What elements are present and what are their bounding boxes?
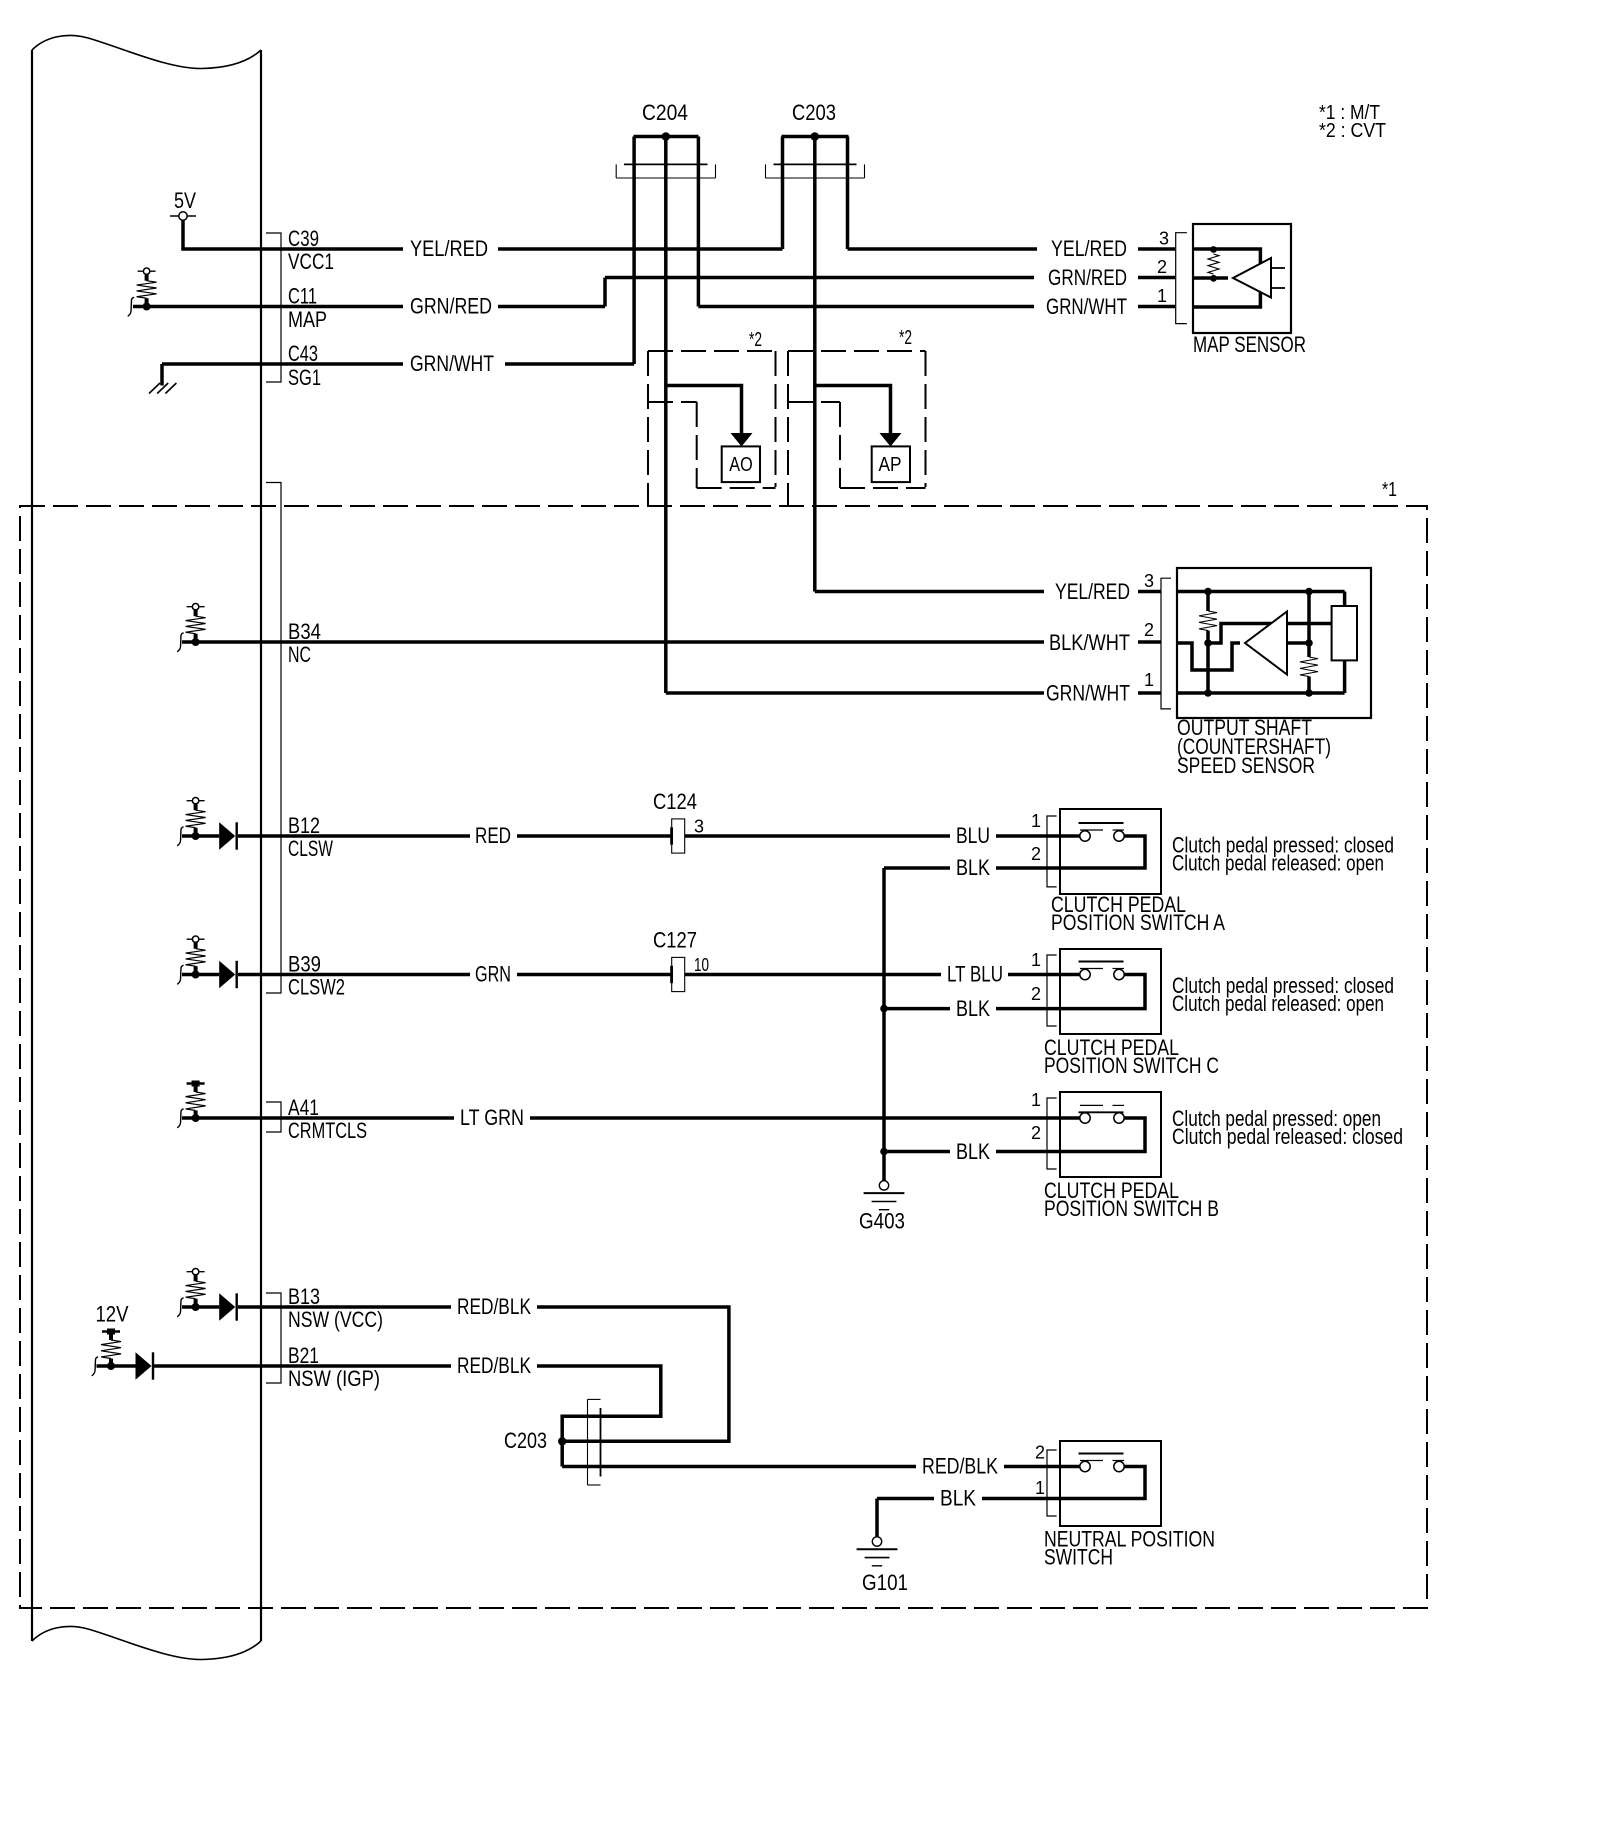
ECM connector bracket A41 [266,1102,281,1132]
wire continuation squiggle C11 [128,297,134,316]
svg-text:SWITCH: SWITCH [1044,1545,1113,1570]
svg-text:C43: C43 [288,341,318,366]
connector bracket at switch C [1047,955,1057,1026]
MAP internal: amplifier triangle [1233,258,1271,298]
svg-text:SG1: SG1 [288,365,321,390]
svg-text:1: 1 [1035,1478,1045,1498]
wire C203 pin left (from C39 YEL/RED) [781,137,785,250]
svg-text:RED/BLK: RED/BLK [457,1353,531,1378]
wire BLK neutral switch pin 1 to G101 [982,1497,1060,1501]
svg-text:GRN/WHT: GRN/WHT [410,351,494,376]
svg-text:POSITION SWITCH B: POSITION SWITCH B [1044,1196,1219,1221]
connector bracket at neutral switch [1047,1450,1057,1516]
svg-text:BLU: BLU [956,823,990,848]
wire C204 pin right (to MAP GRN/WHT) [697,137,701,307]
connector C124 [672,819,685,853]
clutch pedal position switch A [1060,809,1161,894]
svg-text:C11: C11 [288,284,317,309]
svg-text:*2: *2 [899,327,912,349]
pull-up resistor at B39 [187,938,205,940]
node AO [722,446,760,482]
wire 5V to C39 [181,220,185,249]
svg-text:2: 2 [1031,1123,1041,1143]
net *2 CVT dashed outline (AO) [648,350,776,352]
wire GRN/WHT C204 to MAP pin 1 [698,305,1034,309]
svg-text:2: 2 [1031,844,1041,864]
wire C203 pin center (to speed sensor YEL/RED) [813,137,817,592]
MAP internal: supply wrap wire [1193,249,1260,307]
svg-text:GRN/RED: GRN/RED [410,294,492,319]
neutral position switch [1060,1441,1161,1526]
connector bracket at MAP sensor [1176,233,1187,324]
svg-text:*2 : CVT: *2 : CVT [1319,120,1386,142]
wire GRN/WHT C43 to C204 [162,362,261,366]
svg-text:BLK: BLK [956,1139,990,1164]
ground G403 [879,1181,888,1190]
clutch pedal position switch B [1060,1092,1161,1177]
svg-text:BLK/WHT: BLK/WHT [1049,630,1130,655]
node AP [872,446,910,482]
wire BLK switch B pin 2 to ground rail [884,1150,950,1154]
sensor internal: signal jog wire [1177,643,1240,670]
ECM connector bracket B34-B39 [266,483,281,994]
svg-text:Clutch pedal released: open: Clutch pedal released: open [1172,851,1384,876]
wire continuation squiggle B12 [177,827,183,846]
svg-text:POSITION SWITCH A: POSITION SWITCH A [1051,910,1225,935]
wire YEL/RED C39 to C203 [261,247,403,251]
ground G101 [872,1537,881,1546]
wire GRN/RED C11 to MAP pin 2 [133,305,403,309]
ECM connector bracket B13-B21 [266,1293,281,1383]
svg-text:A41: A41 [288,1095,319,1120]
MAP internal: output stubs [1271,267,1285,269]
wire BLK switch C pin 2 to ground rail [884,1007,950,1011]
svg-text:BLK: BLK [956,855,990,880]
svg-text:GRN: GRN [475,962,511,987]
diode at B21 [97,1364,136,1368]
svg-text:CLSW2: CLSW2 [288,975,345,1000]
svg-text:POSITION SWITCH C: POSITION SWITCH C [1044,1053,1219,1078]
svg-text:2: 2 [1031,984,1041,1004]
wire branch to AP (CVT) [815,386,891,435]
wire continuation squiggle B34 [177,633,183,652]
clutch pedal position switch C [1060,949,1161,1034]
svg-text:MAP: MAP [288,307,327,332]
svg-text:3: 3 [1144,571,1154,591]
connector C204 [616,177,715,179]
svg-text:10: 10 [694,955,709,975]
sensor internal: left pullup rail [1206,592,1210,612]
svg-text:B39: B39 [288,952,321,977]
svg-text:SPEED SENSOR: SPEED SENSOR [1177,753,1315,778]
svg-text:GRN/WHT: GRN/WHT [1046,294,1127,319]
junction node RED/BLK [558,1437,566,1445]
wire RED/BLK B21 to C203 junction [261,1364,451,1368]
svg-text:RED/BLK: RED/BLK [922,1454,998,1479]
svg-text:*1: *1 [1382,479,1397,501]
MAP internal: signal wire to amp [1193,276,1228,280]
pull-up resistor at B34 [187,606,205,608]
svg-text:1: 1 [1144,670,1154,690]
wire BLK/WHT B34 to speed sensor pin 2 [182,640,1044,644]
wire BLU C124 to switch A pin 1 [685,834,950,838]
diode at B13 [182,1305,219,1309]
svg-text:C127: C127 [653,928,697,953]
svg-text:5V: 5V [174,188,196,213]
net *2 CVT dashed outline (AP) [788,350,926,352]
wire continuation squiggle A41 [177,1109,183,1128]
svg-text:RED: RED [475,823,511,848]
svg-text:2: 2 [1157,257,1167,277]
svg-text:NC: NC [288,642,311,667]
wire LT GRN A41 to switch B pin 1 [182,1116,454,1120]
svg-text:NSW (VCC): NSW (VCC) [288,1307,383,1332]
ECM/PCM band (torn edges) [31,50,33,1641]
svg-text:C203: C203 [504,1428,547,1453]
svg-text:2: 2 [1035,1443,1045,1463]
pull-up resistor at B12 [187,800,205,802]
svg-text:YEL/RED: YEL/RED [1051,236,1127,261]
wire C204 pin left (to SG1 GRN/WHT) [632,137,636,365]
svg-text:Clutch pedal released: open: Clutch pedal released: open [1172,991,1384,1016]
wire continuation squiggle B39 [177,965,183,984]
connector bracket at switch B [1047,1098,1057,1169]
svg-text:1: 1 [1031,811,1041,831]
svg-text:VCC1: VCC1 [288,249,334,274]
sensor internal: amplifier triangle [1245,612,1287,675]
sensor internal: bottom rail [1177,691,1345,695]
svg-text:3: 3 [694,817,704,837]
connector bracket at speed sensor [1161,578,1171,709]
connector C203 (top) [766,177,865,179]
wire BLK switch A pin 2 to ground rail [884,866,950,870]
svg-text:LT GRN: LT GRN [460,1105,524,1130]
wire continuation squiggle B13 [177,1298,183,1317]
connector C127 [672,957,685,991]
pull-up resistor at C11 [138,270,156,272]
connector bracket at switch A [1047,816,1057,887]
pull-up T-bar resistor at A41 [187,1082,205,1084]
svg-text:AP: AP [879,454,902,476]
OUTPUT SHAFT speed sensor box [1177,568,1371,718]
svg-text:B13: B13 [288,1284,320,1309]
svg-text:LT BLU: LT BLU [947,962,1003,987]
wire RED B12 to C124 [261,834,470,838]
wire YEL/RED C203 to MAP pin 3 [848,247,1038,251]
wire YEL/RED C203 to speed sensor pin 3 [815,590,1044,594]
svg-text:NSW (IGP): NSW (IGP) [288,1366,380,1391]
svg-text:1: 1 [1031,1090,1041,1110]
power 5V [170,215,196,217]
svg-text:Clutch pedal released: closed: Clutch pedal released: closed [1172,1124,1403,1149]
net *1 M/T dashed boundary box [20,506,1427,1608]
sensor internal: load resistor block [1332,606,1357,660]
wire branch to AO (CVT) [666,386,742,435]
diode at B12 [182,834,219,838]
wire ground rail (BLK) [882,868,886,1181]
svg-text:*2: *2 [749,329,762,351]
svg-text:RED/BLK: RED/BLK [457,1294,531,1319]
svg-text:GRN/WHT: GRN/WHT [1046,681,1130,706]
sensor internal: bias step to amp input [1208,624,1332,644]
svg-text:B12: B12 [288,813,320,838]
svg-text:YEL/RED: YEL/RED [1055,579,1130,604]
svg-text:CRMTCLS: CRMTCLS [288,1118,367,1143]
svg-text:12V: 12V [96,1302,129,1327]
ECM connector bracket C39-SG1 [266,233,281,382]
svg-text:GRN/RED: GRN/RED [1048,265,1127,290]
svg-text:B21: B21 [288,1343,319,1368]
svg-text:C39: C39 [288,226,319,251]
svg-text:BLK: BLK [956,996,990,1021]
svg-text:B34: B34 [288,619,321,644]
wire RED/BLK B13 to C203 junction [261,1305,451,1309]
svg-text:MAP SENSOR: MAP SENSOR [1193,332,1306,357]
svg-text:C203: C203 [792,100,836,125]
pull-up resistor at B13 [187,1271,205,1273]
svg-text:3: 3 [1159,229,1169,249]
sensor internal: right rail + resistor [1307,592,1311,658]
sensor internal: output to right rail [1287,641,1309,645]
svg-text:2: 2 [1144,620,1154,640]
svg-text:1: 1 [1157,286,1167,306]
svg-text:C204: C204 [642,100,688,125]
sensor internal: top rail [1177,590,1345,594]
connector C203 (lower) [587,1399,589,1485]
svg-text:CLSW: CLSW [288,836,333,861]
svg-text:C124: C124 [653,789,697,814]
chassis ground at SG1 [160,364,164,386]
wire RED/BLK C203 to neutral switch pin 2 [562,1465,916,1469]
svg-text:BLK: BLK [940,1486,976,1511]
wire C203 pin right (to MAP YEL/RED) [846,137,850,250]
wire C204 pin center (to speed sensor GRN/WHT) [664,137,668,694]
wire continuation squiggle B21 [92,1357,98,1376]
svg-text:AO: AO [729,454,752,476]
wire LT BLU C127 to switch C pin 1 [685,973,941,977]
wire GRN B39 to C127 [261,973,470,977]
svg-text:YEL/RED: YEL/RED [410,236,488,261]
svg-text:1: 1 [1031,950,1041,970]
svg-text:G403: G403 [859,1209,905,1234]
svg-text:G101: G101 [862,1570,908,1595]
MAP sensor box [1193,224,1291,333]
diode at B39 [182,973,219,977]
MAP internal: resistor [1208,254,1219,274]
pull-up T-bar resistor at B21 (12V) [102,1330,120,1332]
wire GRN/WHT C204 to speed sensor pin 1 [666,691,1044,695]
